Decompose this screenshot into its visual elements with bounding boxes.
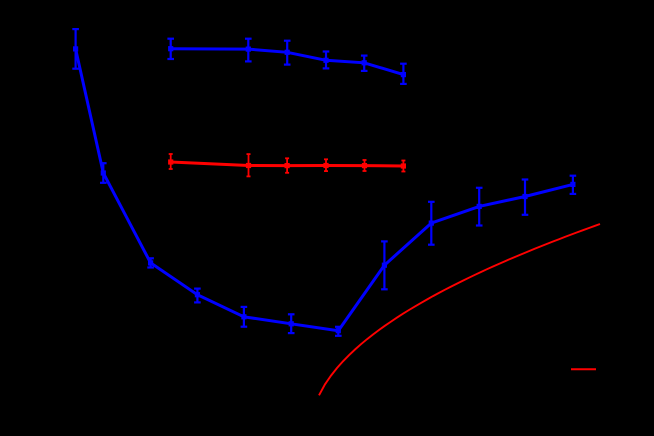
- red series C (flat curve) marker point 1: [168, 159, 173, 164]
- blue series B (top flat curve) error bar point 1: [167, 39, 174, 59]
- blue series B (top flat curve) marker point 2: [246, 47, 251, 52]
- blue series A (U-shaped curve) error bar point 8: [381, 241, 388, 289]
- blue series A (U-shaped curve) error bar point 10: [476, 188, 483, 226]
- legend sample line (red): [571, 368, 596, 370]
- blue series A (U-shaped curve) marker point 1: [73, 46, 78, 51]
- red series C (flat curve) error bar point 4: [324, 159, 328, 171]
- blue series B (top flat curve) marker point 4: [323, 58, 328, 63]
- blue series A (U-shaped curve) error bar point 5: [241, 307, 248, 327]
- blue series A (U-shaped curve) marker point 8: [382, 263, 387, 268]
- blue series A (U-shaped curve) marker point 9: [429, 221, 434, 226]
- blue series A (U-shaped curve) marker point 5: [241, 314, 246, 319]
- blue series A (U-shaped curve) marker point 3: [148, 260, 153, 265]
- blue series A (U-shaped curve) error bar point 11: [522, 180, 529, 215]
- blue series A (U-shaped curve) error bar point 7: [335, 327, 342, 336]
- blue series A (U-shaped curve) error bar point 2: [100, 163, 107, 183]
- red series C (flat curve) error bar point 2: [247, 154, 251, 176]
- red series C (flat curve) error bar point 1: [169, 154, 173, 169]
- red series C (flat curve) error bar point 3: [285, 158, 289, 173]
- blue series A (U-shaped curve) error bar point 9: [428, 202, 435, 245]
- red series C (flat curve) connecting line: [171, 162, 404, 166]
- blue series B (top flat curve) marker point 1: [168, 46, 173, 51]
- red series C (flat curve) error bar point 5: [363, 160, 367, 171]
- red series C (flat curve) marker point 4: [323, 163, 328, 168]
- blue series B (top flat curve) error bar point 2: [245, 39, 252, 62]
- blue series A (U-shaped curve) marker point 2: [101, 170, 106, 175]
- red series C (flat curve) marker point 2: [246, 163, 251, 168]
- blue series A (U-shaped curve) marker point 11: [522, 194, 527, 199]
- blue series B (top flat curve) marker point 3: [285, 50, 290, 55]
- blue series A (U-shaped curve) marker point 7: [336, 328, 341, 333]
- red smooth fitted curve D: [319, 224, 600, 395]
- blue series B (top flat curve) marker point 5: [362, 60, 367, 65]
- blue series B (top flat curve) connecting line: [171, 49, 404, 75]
- red series C (flat curve) marker point 3: [285, 163, 290, 168]
- blue series A (U-shaped curve) error bar point 6: [288, 314, 295, 333]
- blue series B (top flat curve) error bar point 3: [284, 41, 291, 65]
- blue series B (top flat curve) marker point 6: [401, 72, 406, 77]
- red series C (flat curve) error bar point 6: [401, 161, 405, 172]
- red series C (flat curve) marker point 6: [401, 163, 406, 168]
- blue series A (U-shaped curve) connecting line: [76, 49, 573, 331]
- blue series A (U-shaped curve) marker point 10: [477, 204, 482, 209]
- red series C (flat curve) marker point 5: [362, 163, 367, 168]
- blue series A (U-shaped curve) error bar point 1: [72, 29, 79, 69]
- blue series B (top flat curve) error bar point 5: [361, 56, 368, 71]
- blue series A (U-shaped curve) marker point 4: [195, 292, 200, 297]
- blue series A (U-shaped curve) error bar point 4: [194, 289, 201, 303]
- blue series A (U-shaped curve) error bar point 3: [147, 258, 154, 267]
- blue series B (top flat curve) error bar point 6: [400, 64, 407, 84]
- blue series A (U-shaped curve) error bar point 12: [570, 176, 577, 194]
- blue series A (U-shaped curve) marker point 12: [570, 182, 575, 187]
- blue series B (top flat curve) error bar point 4: [323, 52, 330, 69]
- blue series A (U-shaped curve) marker point 6: [289, 321, 294, 326]
